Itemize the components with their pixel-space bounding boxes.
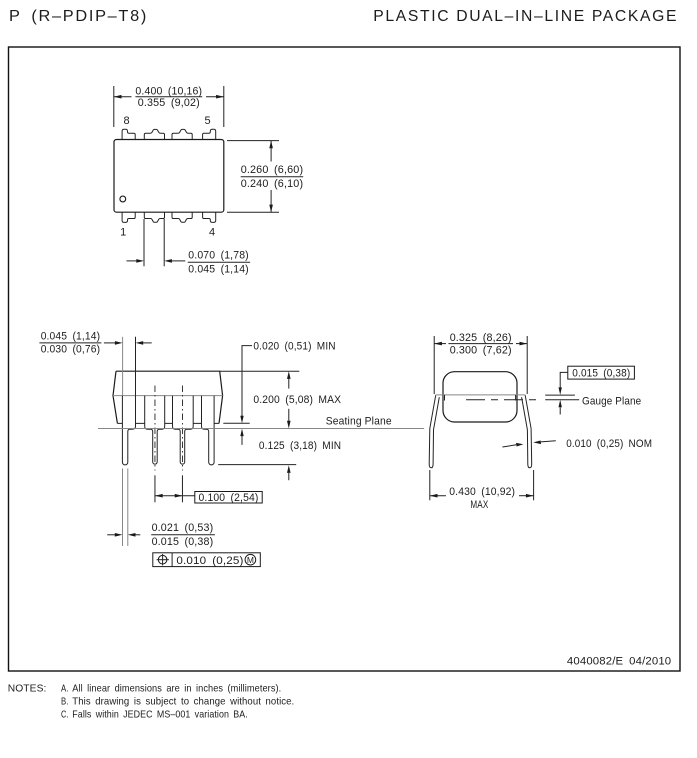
svg-text:MAX: MAX [470,499,488,511]
package body (top view) [114,140,224,213]
lead 2 (front view) [145,396,165,465]
pin 3 (bottom) [172,212,192,222]
pin 1 (bottom left) [122,212,135,222]
dim 0.010 NOM leaders [502,445,516,447]
svg-text:8: 8 [124,115,130,127]
dim 0.260/0.240 dimension line + arrows [270,141,272,162]
svg-text:0.045 (1,14): 0.045 (1,14) [41,331,100,343]
lead attachment edges behind body [444,395,446,401]
dim 0.200 MAX dimension line + arrows [288,378,290,389]
dim 0.430 MAX dimension line + arrows [430,495,446,497]
notes [8,683,295,721]
pin 7 (top) [144,129,164,139]
svg-text:B.: B. [61,696,69,708]
pin 2 (bottom) [144,212,164,222]
svg-text:0.030 (0,76): 0.030 (0,76) [41,344,100,356]
svg-text:C.: C. [61,709,69,721]
svg-text:4: 4 [209,227,215,239]
dim 0.200 MAX top extension [220,370,300,372]
lead 4 (front view, rightmost) [202,396,215,465]
svg-text:P (R–PDIP–T8): P (R–PDIP–T8) [9,8,148,25]
left lead (end view) [429,395,439,468]
dim 0.325/0.300 dimension line + arrows [434,343,446,345]
svg-text:Gauge Plane: Gauge Plane [582,396,641,408]
svg-text:0.021 (0,53): 0.021 (0,53) [152,522,214,534]
svg-text:0.355 (9,02): 0.355 (9,02) [138,97,200,109]
svg-text:4040082/E 04/2010: 4040082/E 04/2010 [567,656,671,668]
svg-text:Seating Plane: Seating Plane [326,416,392,428]
svg-text:All linear dimensions are in i: All linear dimensions are in inches (mil… [72,683,281,695]
dim 0.015 leader + arrows [560,372,568,387]
svg-text:1: 1 [120,227,126,239]
dim 0.045/0.030 arrows [104,342,115,344]
lead 3 centerline [181,386,183,471]
dim 0.400/0.355 extension lines [113,86,115,127]
svg-text:5: 5 [205,115,211,127]
body (end view) [443,372,517,422]
dim 0.260/0.240 extension lines [227,140,279,142]
dim 0.070/0.045 arrows [127,260,137,262]
gauge plane dashed line [466,399,540,401]
lead 3 (front view) [173,396,194,465]
dim 0.400/0.355 dimension line + arrows [114,96,132,98]
svg-text:Falls within JEDEC MS–001 vari: Falls within JEDEC MS–001 variation BA. [72,709,248,721]
svg-text:This drawing is subject to cha: This drawing is subject to change withou… [72,696,294,708]
parting line (front view) [113,395,223,397]
pin 4 (bottom right) [203,212,216,222]
svg-text:0.240 (6,10): 0.240 (6,10) [241,178,304,190]
dim 0.070/0.045 extension lines [143,219,145,266]
pin 8 (top left) [122,129,135,139]
pin 5 (top right) [203,129,216,139]
svg-text:0.200 (5,08) MAX: 0.200 (5,08) MAX [253,394,341,406]
svg-text:0.100 (2,54): 0.100 (2,54) [199,492,259,504]
dim 0.015 box + text [568,366,635,379]
svg-text:0.430 (10,92): 0.430 (10,92) [449,486,515,498]
body bottom edge segments [117,422,219,424]
svg-text:0.015 (0,38): 0.015 (0,38) [152,536,214,548]
lead 2/3 centerline extensions [154,475,156,502]
svg-text:0.325 (8,26): 0.325 (8,26) [450,332,512,344]
svg-text:0.020 (0,51) MIN: 0.020 (0,51) MIN [253,341,335,353]
svg-text:PLASTIC DUAL–IN–LINE PACKAGE: PLASTIC DUAL–IN–LINE PACKAGE [373,8,678,25]
dim 0.430 MAX extension lines [429,470,431,500]
body bottom extension line [223,422,249,424]
svg-text:A.: A. [61,683,69,695]
position symbol [158,555,167,564]
svg-text:0.070 (1,78): 0.070 (1,78) [188,249,249,261]
border frame [9,47,681,671]
M circle (MMC) [245,554,256,565]
dim 0.021/0.015 arrows [107,534,115,536]
dim 0.045/0.030 extension lines [122,337,124,396]
parting line extension [545,394,575,396]
svg-text:0.300 (7,62): 0.300 (7,62) [450,344,512,356]
svg-text:0.010 (0,25) NOM: 0.010 (0,25) NOM [566,438,652,450]
svg-text:M: M [247,555,254,565]
seating plane line [98,428,424,430]
svg-text:0.260 (6,60): 0.260 (6,60) [241,164,304,176]
svg-text:0.045 (1,14): 0.045 (1,14) [188,263,249,275]
lead tip extension line [218,464,296,466]
lead 1 pin edge extension lines [122,469,124,547]
dim 0.325/0.300 extension lines [433,336,435,394]
body outline (front view) [113,371,223,423]
right lead (end view) [522,395,532,468]
dim 0.100 box + text [195,492,262,504]
lead 1 (front view, leftmost) [122,396,135,465]
svg-text:0.015 (0,38): 0.015 (0,38) [572,367,630,379]
svg-text:0.010 (0,25): 0.010 (0,25) [176,555,243,567]
svg-text:0.125 (3,18) MIN: 0.125 (3,18) MIN [259,440,341,452]
parting line (end view) [436,394,526,396]
lead 2 centerline [154,386,156,471]
svg-text:0.400 (10,16): 0.400 (10,16) [135,85,202,97]
pin 6 (top) [172,129,192,139]
svg-text:NOTES:: NOTES: [8,683,47,695]
feature control frame [153,553,260,567]
pin 1 index circle [120,196,126,202]
dim 0.100 pitch arrows [155,495,195,497]
